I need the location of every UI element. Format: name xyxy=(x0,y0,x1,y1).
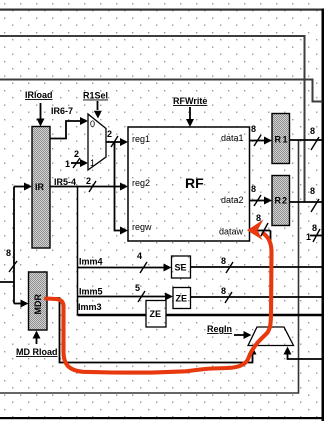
wire into IR xyxy=(14,183,32,191)
label 4 xyxy=(137,251,142,261)
label RFWrite xyxy=(173,96,207,106)
svg-text:2: 2 xyxy=(107,129,112,139)
red arrowhead at dataw xyxy=(247,220,264,241)
slash Imm4 xyxy=(140,262,147,273)
bus B2 xyxy=(0,36,305,202)
label Imm3 xyxy=(78,302,102,312)
wire RegIn xyxy=(234,331,252,339)
slash dataw xyxy=(261,223,268,236)
wire stub 18 right xyxy=(310,235,324,237)
red annotation path xyxy=(46,234,272,373)
wire R1Sel xyxy=(94,101,102,119)
svg-text:Imm5: Imm5 xyxy=(79,287,103,297)
label 8 SE xyxy=(221,256,226,266)
slash mux out xyxy=(111,136,118,147)
wire Imm feeder xyxy=(77,187,79,316)
zero extend ZE2 xyxy=(146,301,166,328)
wire branch to regw xyxy=(115,142,129,235)
label 5 xyxy=(135,283,140,293)
svg-text:MD Rload: MD Rload xyxy=(16,347,58,357)
svg-text:0: 0 xyxy=(90,119,95,129)
svg-text:reg2: reg2 xyxy=(132,178,150,188)
register R1 xyxy=(272,114,290,164)
mux M2 RegIn xyxy=(248,327,294,346)
label 8 dataw xyxy=(256,213,261,223)
wire MD Rload xyxy=(33,331,41,345)
svg-text:IR: IR xyxy=(35,182,45,192)
wire data1 to R1 xyxy=(250,137,273,145)
label IR6-7 xyxy=(51,106,73,116)
label 8 data2 xyxy=(251,184,256,194)
wire right input to mux M2 xyxy=(284,347,324,360)
svg-text:R1: R1 xyxy=(275,135,290,145)
wire IR5-4 xyxy=(50,183,128,191)
label R1Sel xyxy=(83,91,108,101)
wire Imm5 to ZE xyxy=(78,293,174,301)
right border bus xyxy=(322,9,324,421)
label RegIn xyxy=(207,324,232,334)
svg-text:RegIn: RegIn xyxy=(207,324,232,334)
svg-text:ZE: ZE xyxy=(150,309,162,319)
bus B3 xyxy=(0,80,323,102)
svg-text:8: 8 xyxy=(256,213,261,223)
svg-text:2: 2 xyxy=(74,149,79,159)
svg-text:dataw: dataw xyxy=(219,227,244,237)
svg-text:8: 8 xyxy=(221,256,226,266)
register R2 xyxy=(272,176,290,226)
label Imm5 xyxy=(79,287,103,297)
slash memory bus xyxy=(9,261,17,272)
register IR xyxy=(32,127,50,249)
label 2 IR5-4 xyxy=(86,176,91,186)
svg-text:Imm3: Imm3 xyxy=(78,302,102,312)
svg-text:IRload: IRload xyxy=(25,90,53,100)
svg-text:IR6-7: IR6-7 xyxy=(51,106,73,116)
svg-text:data1: data1 xyxy=(221,133,244,143)
slash Imm5 xyxy=(138,291,145,302)
svg-text:R1Sel: R1Sel xyxy=(83,91,108,101)
label 2 mux out xyxy=(107,129,112,139)
wire into MDR xyxy=(14,300,29,308)
sign extend SE xyxy=(172,256,191,278)
label IR5-4 xyxy=(54,177,76,187)
svg-text:8: 8 xyxy=(221,286,226,296)
label 8 R1 out xyxy=(310,126,315,136)
wire R1 out xyxy=(290,139,324,141)
svg-text:reg1: reg1 xyxy=(132,134,150,144)
mux M1 R1Sel xyxy=(88,114,106,170)
slash data1 xyxy=(254,135,261,146)
wire RFWrite xyxy=(186,107,194,127)
wire IRload xyxy=(37,103,45,127)
label MD Rload xyxy=(16,347,58,357)
svg-text:1: 1 xyxy=(65,159,70,169)
svg-text:RFWrite: RFWrite xyxy=(173,96,207,106)
svg-text:8: 8 xyxy=(310,186,315,196)
wire Imm4 to SE xyxy=(78,264,172,272)
label 8 data1 xyxy=(251,124,256,134)
svg-text:R2: R2 xyxy=(275,196,289,206)
slash data2 xyxy=(254,195,261,206)
label constant 1 xyxy=(65,159,70,169)
svg-text:1: 1 xyxy=(306,232,311,242)
wire const into mux xyxy=(71,159,88,167)
register file RF xyxy=(128,127,250,241)
svg-text:Imm4: Imm4 xyxy=(79,257,103,267)
zero extend ZE1 xyxy=(173,288,191,309)
svg-text:regw: regw xyxy=(132,222,152,232)
svg-text:SE: SE xyxy=(175,263,187,273)
wire memory data in xyxy=(0,187,14,304)
svg-text:2: 2 xyxy=(86,176,91,186)
slash ZE1 out xyxy=(225,292,232,303)
bottom border bus xyxy=(0,417,324,419)
svg-text:1: 1 xyxy=(90,158,95,168)
wire SE out xyxy=(191,266,324,268)
wire dataw stub xyxy=(250,231,271,328)
label 8 memory bus xyxy=(6,248,11,258)
slash SE out xyxy=(226,262,233,273)
label 8 R2 out xyxy=(310,186,315,196)
slash IR5-4 xyxy=(89,181,96,192)
wire mux out to reg1 xyxy=(106,138,128,146)
label IRload xyxy=(25,90,53,100)
svg-text:8: 8 xyxy=(251,184,256,194)
label 8 stub xyxy=(312,223,317,233)
bus B1 top xyxy=(0,9,323,11)
label 1 stub xyxy=(306,232,311,242)
register MDR xyxy=(29,272,48,330)
svg-text:ZE: ZE xyxy=(176,294,188,304)
label 2 const xyxy=(74,149,79,159)
svg-text:5: 5 xyxy=(135,283,140,293)
svg-text:MDR: MDR xyxy=(33,294,43,315)
slash stub xyxy=(313,229,320,242)
bus B4 feedback xyxy=(0,140,299,393)
wire R2 out xyxy=(290,201,324,203)
wire ZE1 out xyxy=(191,296,324,298)
wire data2 to R2 xyxy=(250,197,273,205)
wire IR6-7 xyxy=(50,117,88,139)
slash R2 out xyxy=(311,199,319,212)
svg-text:4: 4 xyxy=(137,251,142,261)
slash const wire xyxy=(73,158,80,168)
svg-text:8: 8 xyxy=(6,248,11,258)
svg-text:8: 8 xyxy=(310,126,315,136)
svg-text:data2: data2 xyxy=(221,195,244,205)
svg-text:IR5-4: IR5-4 xyxy=(54,177,76,187)
wire MDR out to mux xyxy=(47,298,257,363)
svg-text:8: 8 xyxy=(251,124,256,134)
label Imm4 xyxy=(79,257,103,267)
svg-text:8: 8 xyxy=(312,223,317,233)
svg-text:RF: RF xyxy=(185,175,204,191)
label 8 ZE1 xyxy=(221,286,226,296)
wire Imm3 xyxy=(78,314,324,316)
slash R1 out xyxy=(311,137,319,150)
